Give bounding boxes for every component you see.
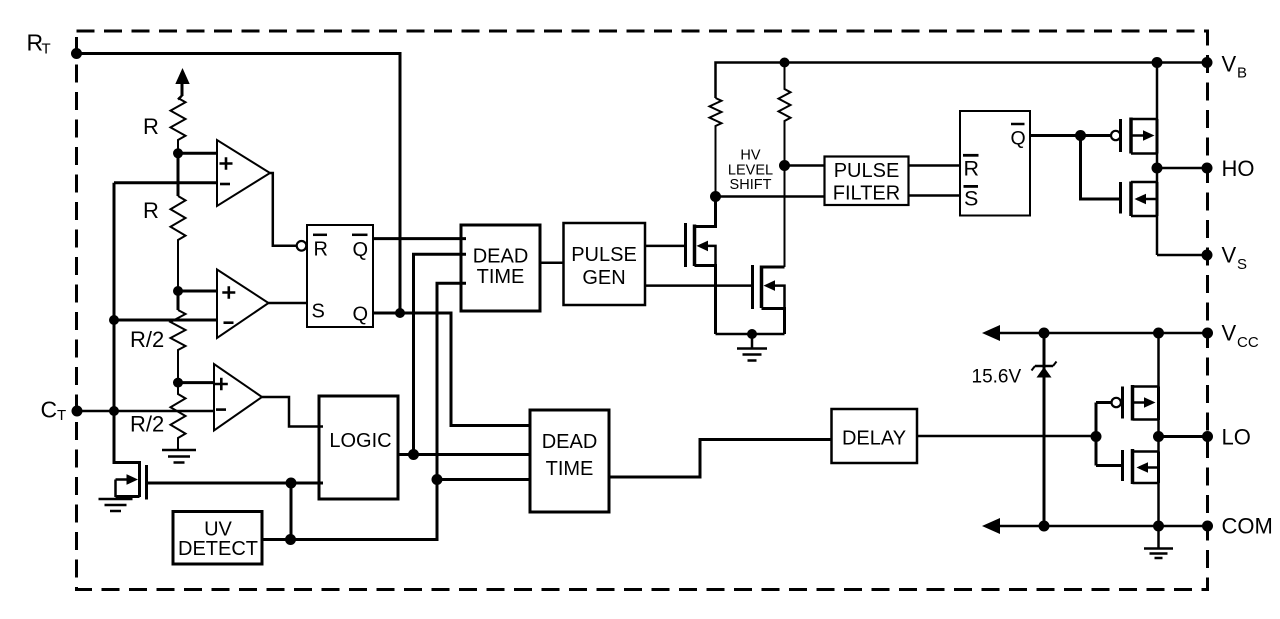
node gate / LOGIC input [286,478,297,489]
wire gate node down to UV line [290,483,293,540]
wire LO to pin [1159,435,1208,438]
svg-text:V: V [1222,243,1237,268]
wire HO to pin [1157,167,1207,170]
wire U1 output to latch R input [270,173,297,246]
svg-text:V: V [1222,321,1237,346]
node level-shift left [710,191,721,202]
svg-text:R/2: R/2 [130,327,164,352]
pin RT label [27,30,51,58]
svg-text:GEN: GEN [582,267,625,289]
svg-text:R: R [314,238,328,260]
wire PG output 2 to Q3 gate [645,284,753,287]
comparator U3 [214,364,262,431]
svg-text:LOGIC: LOGIC [329,430,391,452]
wire DT1 output to PULSE GEN [540,261,564,264]
VCC rail with arrow [982,325,1208,341]
svg-text:T: T [42,41,51,58]
pin CT label [41,397,67,425]
pin VS label [1222,243,1248,274]
svg-text:Q: Q [1011,128,1026,150]
wire node A to U1 + input [178,152,218,155]
node CT / bus junction [109,406,119,416]
svg-text:Q: Q [353,239,369,261]
latch U4 Qbar label [352,235,368,261]
wire UV DETECT output [262,538,295,541]
DEAD TIME 1 text [473,246,529,289]
PULSE FILTER text [833,160,900,205]
transistor Q6 (low-side P-channel) [1123,333,1159,437]
wire DT2 output to DELAY [609,440,832,478]
node line B / UV output [285,534,296,545]
wire PG output 1 to Q2 gate [645,245,686,248]
node COM / Q7 source [1153,521,1164,532]
svg-text:T: T [57,407,66,424]
svg-text:COM: COM [1222,514,1273,539]
DELAY box [832,409,918,463]
wire to U1 - input [114,181,218,184]
zener diode D1 [1032,333,1057,526]
transistor Q3 (lower level-shift NMOS) [753,265,785,334]
wire latch Qbar to DEAD TIME 1 [373,237,466,240]
resistor R/2 (lower) [171,383,186,449]
svg-text:SHIFT: SHIFT [730,177,772,193]
wire DT1 input 2 (line A from LOGIC) [414,254,467,454]
DEAD TIME 2 text [542,431,598,480]
resistor R/2 (upper) [171,310,186,383]
wire node B to U2 + input [178,290,218,293]
node VB / Q4 drain [1152,57,1163,68]
svg-text:LEVEL: LEVEL [728,163,773,179]
svg-text:DELAY: DELAY [842,428,906,450]
node VB rail / R6 [780,58,790,68]
svg-text:R: R [143,114,159,139]
node on CT bus for U2 - input [109,315,119,325]
svg-text:R: R [964,157,980,181]
pin COM dot [1202,521,1213,532]
wire PF output to latch2 Rbar [908,164,960,167]
HV LEVEL SHIFT text [728,148,773,194]
ground below resistor chain [162,450,196,463]
inverter bubble at R input [297,241,307,251]
wire LO gate bracket [1096,403,1123,466]
node B (R/R2 junction) [173,286,183,296]
svg-text:V: V [1222,52,1237,77]
PULSE GEN box [564,223,646,305]
wire latch U5 Qbar to output gates [1030,134,1111,137]
wire U3 output to LOGIC [262,397,323,427]
svg-text:HV: HV [740,148,760,164]
DEAD TIME 1 box [461,225,540,311]
svg-text:PULSE: PULSE [834,160,900,182]
svg-text:S: S [964,187,978,211]
resistor R6 (level shift right) [779,63,791,268]
wire DT2 input 3 from line B [437,478,531,481]
node LO output [1153,431,1164,442]
LOGIC box [319,396,398,499]
wire U2 output to latch S input [269,302,308,305]
wire to U2 - input [114,319,218,322]
PULSE FILTER box [825,157,909,206]
transistor Q1 (CT discharge) [114,411,147,500]
COM rail with arrow [982,518,1208,534]
pin HO dot [1202,163,1213,174]
latch U5 Qbar label [1011,124,1026,150]
pin VCC label [1222,321,1259,352]
UV DETECT text [178,519,258,561]
pin VS dot [1202,250,1213,261]
svg-text:FILTER: FILTER [833,183,900,205]
UV DETECT box [173,512,262,565]
svg-text:R: R [143,198,159,223]
comparator U2 [217,270,269,339]
CT bus vertical wire (inverting inputs) [113,183,116,411]
wire R5 node to PULSE FILTER bottom input [716,195,826,198]
SR latch U5 (high side) [960,111,1030,216]
VB rail wire [716,63,1208,99]
latch U5 Sbar label [964,186,979,210]
wire DT1 input 3 (line B from UV) [291,283,466,539]
wire node C to U3 + input [178,381,215,384]
svg-text:CC: CC [1237,334,1259,351]
node HO junction [1152,163,1163,174]
svg-text:HO: HO [1222,156,1255,181]
svg-text:S: S [312,301,325,323]
svg-text:C: C [41,397,58,423]
wire chain segment [177,153,180,196]
wire VS from Q5 source [1157,254,1207,257]
node C (R2/R2 junction) [173,378,183,388]
ground below Q7 [1144,526,1173,558]
latch U5 Rbar label [963,155,979,180]
wire Q1 gate to LOGIC [147,482,324,485]
wire CT to comparator U3 inverting input [77,410,214,413]
wire DELAY output to LO gates [917,435,1096,438]
pin VCC dot [1202,328,1213,339]
pin CT dot [72,406,83,417]
wire latch Q to DEAD TIME 2 (via line C) [373,313,531,426]
comparator U1 [217,140,270,206]
node VCC / Q6 drain [1153,328,1164,339]
supply arrow at top of resistor chain [175,68,189,100]
svg-text:DEAD: DEAD [542,431,598,453]
transistor Q5 (high-side N-channel) [1121,168,1158,255]
ground below Q1 [99,499,133,511]
latch U4 Rbar label [313,235,328,260]
node line B / DT2 input 3 [432,474,443,485]
node VCC / zener [1039,328,1050,339]
svg-text:TIME: TIME [477,266,525,288]
node ground junction [747,329,757,339]
SR latch U4 [307,225,373,327]
pin VB label [1222,52,1248,82]
transistor Q4 (high-side P-channel) [1121,63,1158,169]
wire gate down to Q5 [1081,136,1121,200]
svg-text:Q: Q [353,303,369,325]
svg-text:DETECT: DETECT [178,538,258,560]
wire R6 node to PULSE FILTER top input [785,164,826,167]
transistor Q2 (upper level-shift NMOS) [686,197,716,335]
svg-text:TIME: TIME [546,458,594,480]
resistor R (top) [171,98,186,153]
svg-text:LO: LO [1222,425,1251,450]
resistor R5 (level shift left) [710,98,722,197]
pin LO dot [1202,431,1213,442]
ground symbol below Q2/Q3 [737,334,767,361]
inverter bubble at Q4 gate [1111,131,1120,140]
svg-text:15.6V: 15.6V [972,367,1022,388]
DEAD TIME 2 box [530,410,609,512]
pin RT dot [71,48,82,59]
node LOGIC output / line A [408,449,419,460]
ground rail below Q2/Q3 [716,333,785,336]
wire LOGIC output to DT2 [398,453,531,456]
node COM / zener [1039,521,1050,532]
wire PF output to latch2 Sbar [908,194,960,197]
wire RT to vertical feedback [77,54,401,314]
IC boundary dashed border [77,31,1208,590]
resistor R (second) [171,196,186,291]
svg-text:S: S [1237,256,1247,273]
node level-shift right [779,160,790,171]
pin VB dot [1202,57,1213,68]
node on Q output [395,308,405,318]
node A (R/R junction) [173,148,183,158]
inverter bubble at Q6 gate [1112,398,1121,407]
svg-text:B: B [1237,65,1247,82]
node LO gate [1091,431,1102,442]
transistor Q7 (low-side N-channel) [1123,437,1159,527]
PULSE GEN text [571,244,637,289]
svg-text:DEAD: DEAD [473,246,529,268]
svg-text:R/2: R/2 [130,412,164,437]
node gate split [1075,130,1086,141]
svg-text:PULSE: PULSE [571,244,637,266]
wire chain segment [177,291,180,310]
